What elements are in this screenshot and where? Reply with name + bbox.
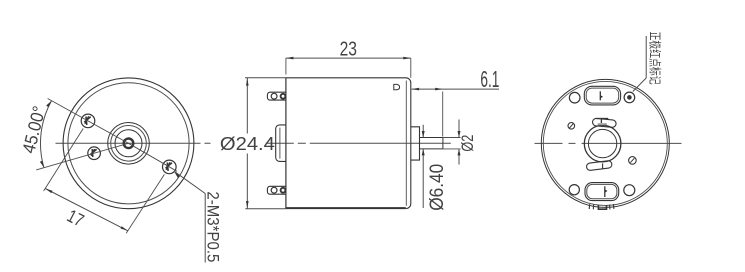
svg-text:Ø24.4: Ø24.4 [220, 134, 275, 154]
svg-text:Ø2: Ø2 [459, 135, 477, 152]
svg-text:正极红点标记: 正极红点标记 [648, 32, 663, 85]
svg-text:Ø6.40: Ø6.40 [427, 164, 448, 211]
svg-text:6.1: 6.1 [480, 66, 499, 92]
svg-text:23: 23 [340, 39, 357, 61]
svg-text:2-M3*P0.5: 2-M3*P0.5 [203, 191, 222, 262]
